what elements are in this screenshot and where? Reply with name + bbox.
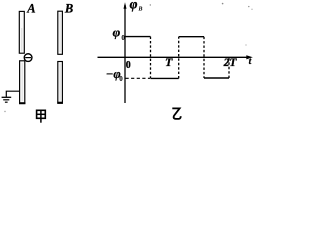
label jia (Chinese) drawn as path: [37, 110, 46, 122]
waveform falling edge 1: [150, 37, 152, 79]
waveform high segment 2: [179, 36, 204, 38]
waveform falling edge 2: [203, 37, 205, 78]
y axis arrow: [124, 2, 127, 9]
svg-text:T: T: [165, 55, 173, 69]
t axis: [98, 56, 251, 58]
plate A upper segment: [19, 11, 24, 53]
svg-text:t: t: [249, 57, 252, 67]
plate B upper segment: [58, 11, 63, 54]
svg-text:0: 0: [121, 34, 125, 42]
svg-text:B: B: [137, 5, 142, 12]
waveform: guide dash at -phi0 from axis: [126, 77, 151, 79]
waveform high segment 1: [126, 36, 151, 38]
svg-text:φ: φ: [130, 0, 138, 12]
plate interior shading streaks: [21, 28, 23, 52]
y axis (phi): [124, 5, 126, 103]
charged particle (minus in circle) at hole of plate A: [24, 54, 32, 62]
ground: [2, 96, 12, 98]
label yi (Chinese) drawn as path: [172, 108, 180, 119]
waveform low segment 2: [204, 77, 229, 79]
plate B lower thick bottom edge: [57, 102, 63, 104]
plate A lower segment: [20, 61, 25, 104]
svg-text:B: B: [64, 1, 73, 15]
plate A lower thick bottom edge: [19, 102, 25, 104]
scan speckles: [150, 4, 151, 5]
waveform low segment 1: [151, 77, 179, 79]
svg-text:φ: φ: [113, 25, 121, 40]
wire from plate A to ground: [6, 91, 19, 97]
svg-text:0: 0: [119, 75, 123, 83]
plate B lower segment: [58, 62, 63, 104]
svg-text:A: A: [26, 1, 35, 15]
waveform rising edge 1: [178, 37, 180, 79]
svg-text:0: 0: [126, 60, 131, 71]
t axis arrow: [246, 55, 253, 59]
svg-text:2T: 2T: [223, 57, 238, 69]
waveform rising edge 2 (to axis): [228, 58, 230, 78]
